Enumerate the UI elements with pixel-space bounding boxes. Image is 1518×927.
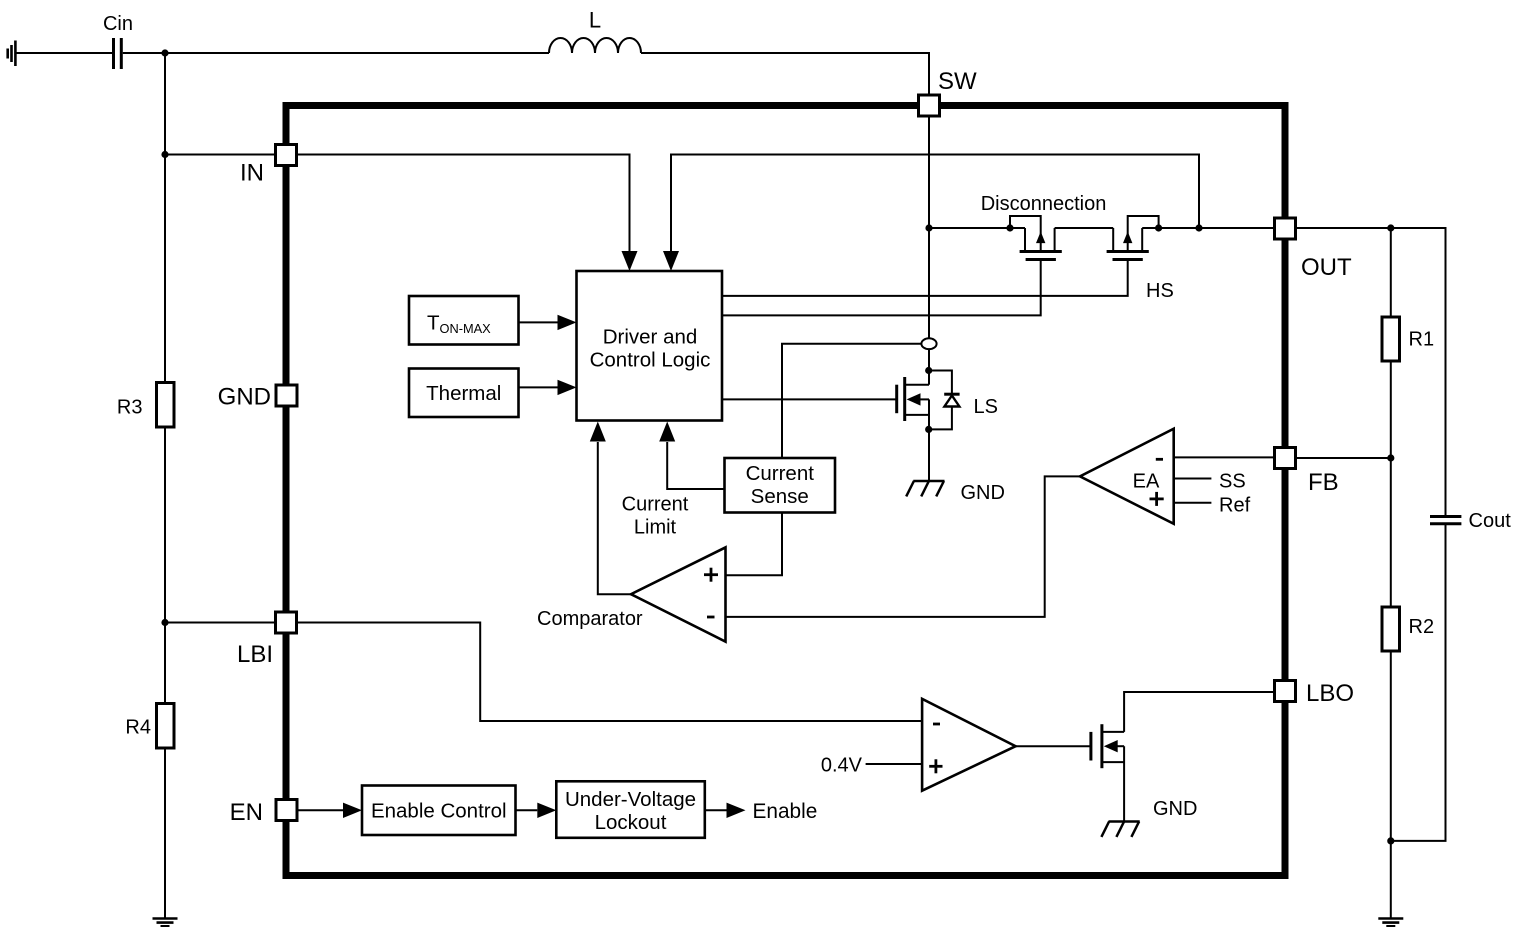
block Driver and Control Logic U1 [577,271,723,421]
wire R1 to FB node [1390,361,1392,607]
svg-text:Cout: Cout [1469,510,1512,532]
wire EA output to comparator minus input [726,476,1081,617]
transistor Q1 disconnection PMOS (left) [1010,216,1041,252]
wire EA minus input to FB pin [1174,456,1274,458]
svg-text:Enable: Enable [753,800,818,823]
transistor Q3 LS NMOS [895,385,898,414]
svg-text:Cin: Cin [103,13,133,35]
node SW/OUT net junction [925,224,932,231]
block T ON-MAX [409,296,519,345]
wire OUT sense to driver logic arrow [671,155,1199,252]
inductor L [549,38,641,53]
wire OUT pin to output node and Cout branch [1297,228,1446,516]
wire LBO drain to LBO pin [1124,692,1274,732]
sense tap circle on SW line [921,338,936,349]
capacitor Cin [114,38,122,69]
wire current sense to driver arrow [667,442,724,489]
wire source to Cin [17,52,113,54]
wire UVLO arrow to Enable [705,809,727,811]
svg-text:EN: EN [230,799,263,826]
capacitor Cout [1430,517,1461,524]
node bottom junction [1387,837,1394,844]
pin OUT [1275,218,1296,239]
svg-text:GND: GND [1153,798,1197,820]
wire Ref stub [1174,502,1212,504]
wire node to LBI pin [165,622,275,624]
wire T ON-MAX arrow to driver [519,321,558,323]
svg-text:LBO: LBO [1306,680,1354,707]
resistor R2 [1382,607,1400,651]
wire SS stub [1174,478,1212,480]
svg-text:Current: Current [622,494,689,516]
wire EN pin arrow to enable control [298,809,343,811]
svg-text:Enable Control: Enable Control [371,800,507,823]
wire R3 to LBI node [164,427,166,704]
wire comparator output to LBO gate [1016,745,1091,747]
wire IN pin to driver logic arrow [298,155,630,252]
diode D1 LS body diode [929,371,952,395]
wire Cout bottom to node [1391,524,1446,841]
ground (bottom left) [153,919,178,927]
svg-text:OUT: OUT [1301,254,1352,281]
wire LBI pin to low-battery comparator minus input [298,623,922,722]
pin SW [919,95,940,116]
wire current sense to comparator plus input [727,513,783,576]
block Current Sense [725,458,836,513]
svg-text:Ref: Ref [1219,495,1251,517]
wire FB pin to divider node [1297,457,1391,459]
svg-text:LBI: LBI [237,641,273,668]
ground GND (below LBO, chassis) [1101,822,1139,837]
wire Cin to input node [123,52,165,54]
op-amp low-battery comparator [922,699,1016,791]
wire R4 to ground [164,748,166,919]
resistor R4 [157,704,175,749]
svg-text:Driver and: Driver and [603,326,698,349]
wire 0.4V reference stub [866,763,923,765]
wire input node down to IN rail and R3 [164,53,166,383]
op-amp comparator (current limit) [631,547,726,641]
node LS drain junction [925,367,932,374]
node FB junction [1387,454,1394,461]
block Thermal [409,369,519,418]
resistor R1 [1382,317,1400,361]
svg-text:R3: R3 [117,397,143,419]
wire driver to LS gate [722,398,897,400]
wire output node down to R1 [1390,228,1392,317]
svg-text:Under-Voltage: Under-Voltage [565,788,696,811]
wire driver to HS gate [722,261,1128,296]
pin GND [276,385,297,406]
svg-text:R2: R2 [1409,616,1435,638]
wire sense tap down to LS drain [928,349,930,385]
wire inductor to SW pin [641,53,929,95]
ground GND (below LS, chassis) [906,481,944,496]
svg-text:R1: R1 [1409,329,1435,351]
svg-text:FB: FB [1308,469,1339,496]
svg-text:L: L [589,8,601,33]
pin FB [1275,448,1296,469]
wire between disconnection transistors [1055,227,1114,229]
node output junction [1387,224,1394,231]
pin EN [276,800,297,821]
svg-text:Comparator: Comparator [537,608,643,630]
svg-text:Thermal: Thermal [426,382,501,405]
svg-text:EA: EA [1133,471,1160,493]
pin LBI [276,612,297,633]
node LBI junction [161,619,168,626]
node input junction [161,49,168,56]
op-amp EA error amplifier [1080,429,1174,524]
resistor R3 [157,383,175,428]
svg-text:SW: SW [938,68,977,95]
block Enable Control [362,786,516,836]
IC boundary box [286,106,1285,876]
svg-text:Lockout: Lockout [595,811,667,834]
pin LBO [1275,681,1296,702]
wire comparator output to driver arrow [598,442,631,594]
wire SW rail on OUT net [929,227,1025,229]
svg-text:Disconnection: Disconnection [981,193,1107,215]
node LS source junction [925,426,932,433]
svg-text:GND: GND [218,384,271,411]
wire node to inductor [165,52,549,54]
node disconnection drain junction [1195,224,1202,231]
wire enable control arrow to UVLO [516,809,538,811]
wire Thermal arrow to driver [519,386,558,388]
svg-text:Current: Current [746,462,815,485]
svg-text:IN: IN [240,160,264,187]
svg-text:0.4V: 0.4V [821,755,863,777]
svg-text:TON-MAX: TON-MAX [427,312,491,337]
svg-text:R4: R4 [125,717,151,739]
svg-text:Control Logic: Control Logic [590,349,711,372]
svg-text:LS: LS [974,396,998,418]
svg-text:Limit: Limit [634,517,677,539]
pin IN [276,145,297,166]
wire LS source to ground [928,429,930,481]
node IN rail junction [161,151,168,158]
svg-text:Sense: Sense [751,485,809,508]
wire sense tap to current sense block [782,344,921,458]
wire driver to disconnection gate [722,261,1041,315]
wire HS drain to OUT pin [1142,227,1274,229]
wire R2 to bottom node [1390,651,1392,919]
ground (bottom right) [1378,919,1403,927]
transistor Q4 LBO NMOS [1089,732,1092,761]
svg-text:HS: HS [1146,280,1174,302]
svg-text:SS: SS [1219,471,1246,493]
wire node to IN pin [165,154,275,156]
source ground (input supply, rotated earth symbol) [8,41,16,67]
svg-text:GND: GND [961,482,1005,504]
transistor Q2 HS PMOS (right) [1128,216,1159,252]
block Under-Voltage Lockout [556,781,705,838]
wire SW pin down to sense tap [928,117,930,339]
